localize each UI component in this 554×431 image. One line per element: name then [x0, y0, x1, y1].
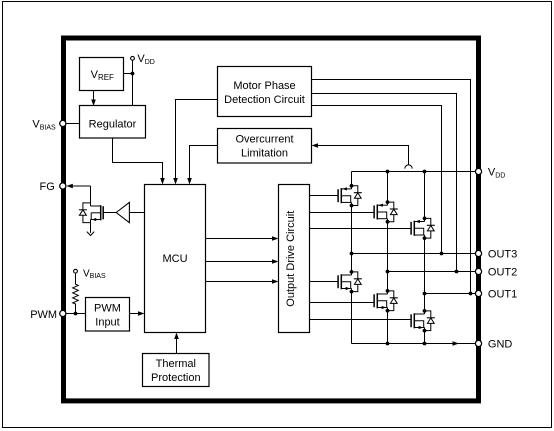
wire phase sense OUT3: [312, 106, 442, 254]
transistor Q4 high-side 3 MOSFET: [411, 217, 435, 241]
wire OUT2 line: [388, 271, 477, 273]
wire PWM Input to MCU: [130, 313, 140, 315]
wire phase sense OUT1: [312, 80, 471, 294]
terminal VBIAS pullup circle: [74, 269, 78, 273]
block PWM Input: [86, 298, 130, 332]
svg-text:Input: Input: [95, 317, 119, 329]
wire GND rail: [352, 343, 477, 345]
wire gate HS1: [310, 195, 339, 197]
terminal OUT2: [475, 268, 481, 274]
block Output Drive Circuit: [279, 185, 310, 333]
buffer A1 FG driver: [116, 202, 129, 222]
node VDD rail col3: [423, 170, 427, 174]
wire FG output: [73, 185, 91, 187]
transistor Q3 high-side 2 MOSFET: [374, 200, 398, 224]
transistor Q7 low-side 3 MOSFET: [411, 309, 435, 333]
wire MPDC to MCU: [176, 100, 218, 180]
wire VBIAS to Regulator: [66, 123, 80, 125]
wire MCU to buffer: [129, 212, 144, 214]
svg-text:OUT2: OUT2: [488, 267, 517, 279]
svg-text:MCU: MCU: [162, 253, 187, 265]
resistor R1 pullup: [73, 273, 79, 313]
svg-text:Thermal: Thermal: [156, 358, 196, 370]
node PWM/resistor junction: [74, 312, 78, 316]
block Motor Phase Detection Circuit: [218, 67, 312, 117]
terminal VDD top circle: [131, 56, 135, 60]
wire Q1 source down: [90, 223, 92, 233]
wire MCU to ODC signal 3: [206, 281, 274, 283]
wire half-bridge column 2: [387, 172, 389, 203]
svg-text:OUT1: OUT1: [488, 289, 517, 301]
wire overcurrent sense: [313, 146, 409, 165]
wire MCU to ODC signal 1: [206, 238, 274, 240]
terminal OUT3: [475, 250, 481, 256]
wire PWM to PWM Input: [66, 313, 86, 315]
svg-text:Output Drive Circuit: Output Drive Circuit: [285, 211, 297, 307]
wire gate LS3: [310, 319, 412, 321]
wire VDD rail: [352, 171, 477, 173]
wire Regulator to MCU: [113, 138, 163, 179]
node VDD/VREF junction: [131, 72, 135, 76]
transistor Q5 low-side 1 MOSFET: [338, 270, 362, 294]
block Overcurrent Limitation: [218, 129, 312, 164]
svg-text:OUT3: OUT3: [488, 249, 517, 261]
wire Thermal Protection to MCU: [176, 338, 178, 354]
wire VREF to Regulator arrow: [93, 91, 95, 101]
node VDD rail col2: [386, 170, 390, 174]
block Regulator: [80, 106, 146, 139]
transistor Q1 FG open-drain MOSFET: [79, 203, 103, 223]
wire VREF right to VDD node: [124, 73, 133, 75]
wire OUT1 line: [425, 293, 477, 295]
block VREF U1: [80, 58, 124, 91]
ground arrow under Q1: [87, 232, 94, 236]
block Thermal Protection: [143, 354, 210, 387]
svg-text:Overcurrent: Overcurrent: [235, 134, 293, 146]
wire half-bridge column 3: [424, 172, 426, 219]
terminal VBIAS: [60, 120, 66, 126]
terminal PWM: [60, 310, 66, 316]
transistor Q6 low-side 2 MOSFET: [374, 289, 398, 313]
wire gate LS1: [310, 281, 339, 283]
wire OUT3 line: [352, 253, 477, 255]
terminal GND: [475, 340, 481, 346]
svg-text:PWM: PWM: [94, 303, 121, 315]
svg-text:GND: GND: [488, 339, 513, 351]
block MCU: [145, 185, 206, 333]
svg-text:PWM: PWM: [30, 309, 57, 321]
wire buffer to Q1 gate: [103, 212, 116, 214]
svg-text:Detection Circuit: Detection Circuit: [224, 94, 305, 106]
wire gate HS2: [310, 212, 375, 214]
transistor Q2 high-side 1 MOSFET: [338, 184, 362, 208]
svg-text:Limitation: Limitation: [241, 148, 288, 160]
wire VDD top vertical: [132, 60, 134, 105]
wire FG to transistor: [90, 186, 92, 203]
wire gate LS2: [310, 302, 375, 304]
terminal FG: [60, 183, 66, 189]
wire gate HS3: [310, 228, 412, 230]
svg-text:Regulator: Regulator: [89, 119, 137, 131]
svg-text:Protection: Protection: [151, 372, 201, 384]
svg-text:FG: FG: [40, 181, 55, 193]
crossover hop on VDD rail: [405, 165, 412, 169]
terminal OUT1: [475, 290, 481, 296]
wire phase sense OUT2: [312, 94, 457, 272]
svg-text:Motor Phase: Motor Phase: [233, 80, 295, 92]
wire Overcurrent to MCU: [190, 146, 218, 180]
wire half-bridge column 1: [351, 172, 353, 186]
IC boundary (thick border): [64, 38, 479, 401]
terminal VDD right: [475, 168, 481, 174]
wire MCU to ODC signal 2: [206, 261, 274, 263]
